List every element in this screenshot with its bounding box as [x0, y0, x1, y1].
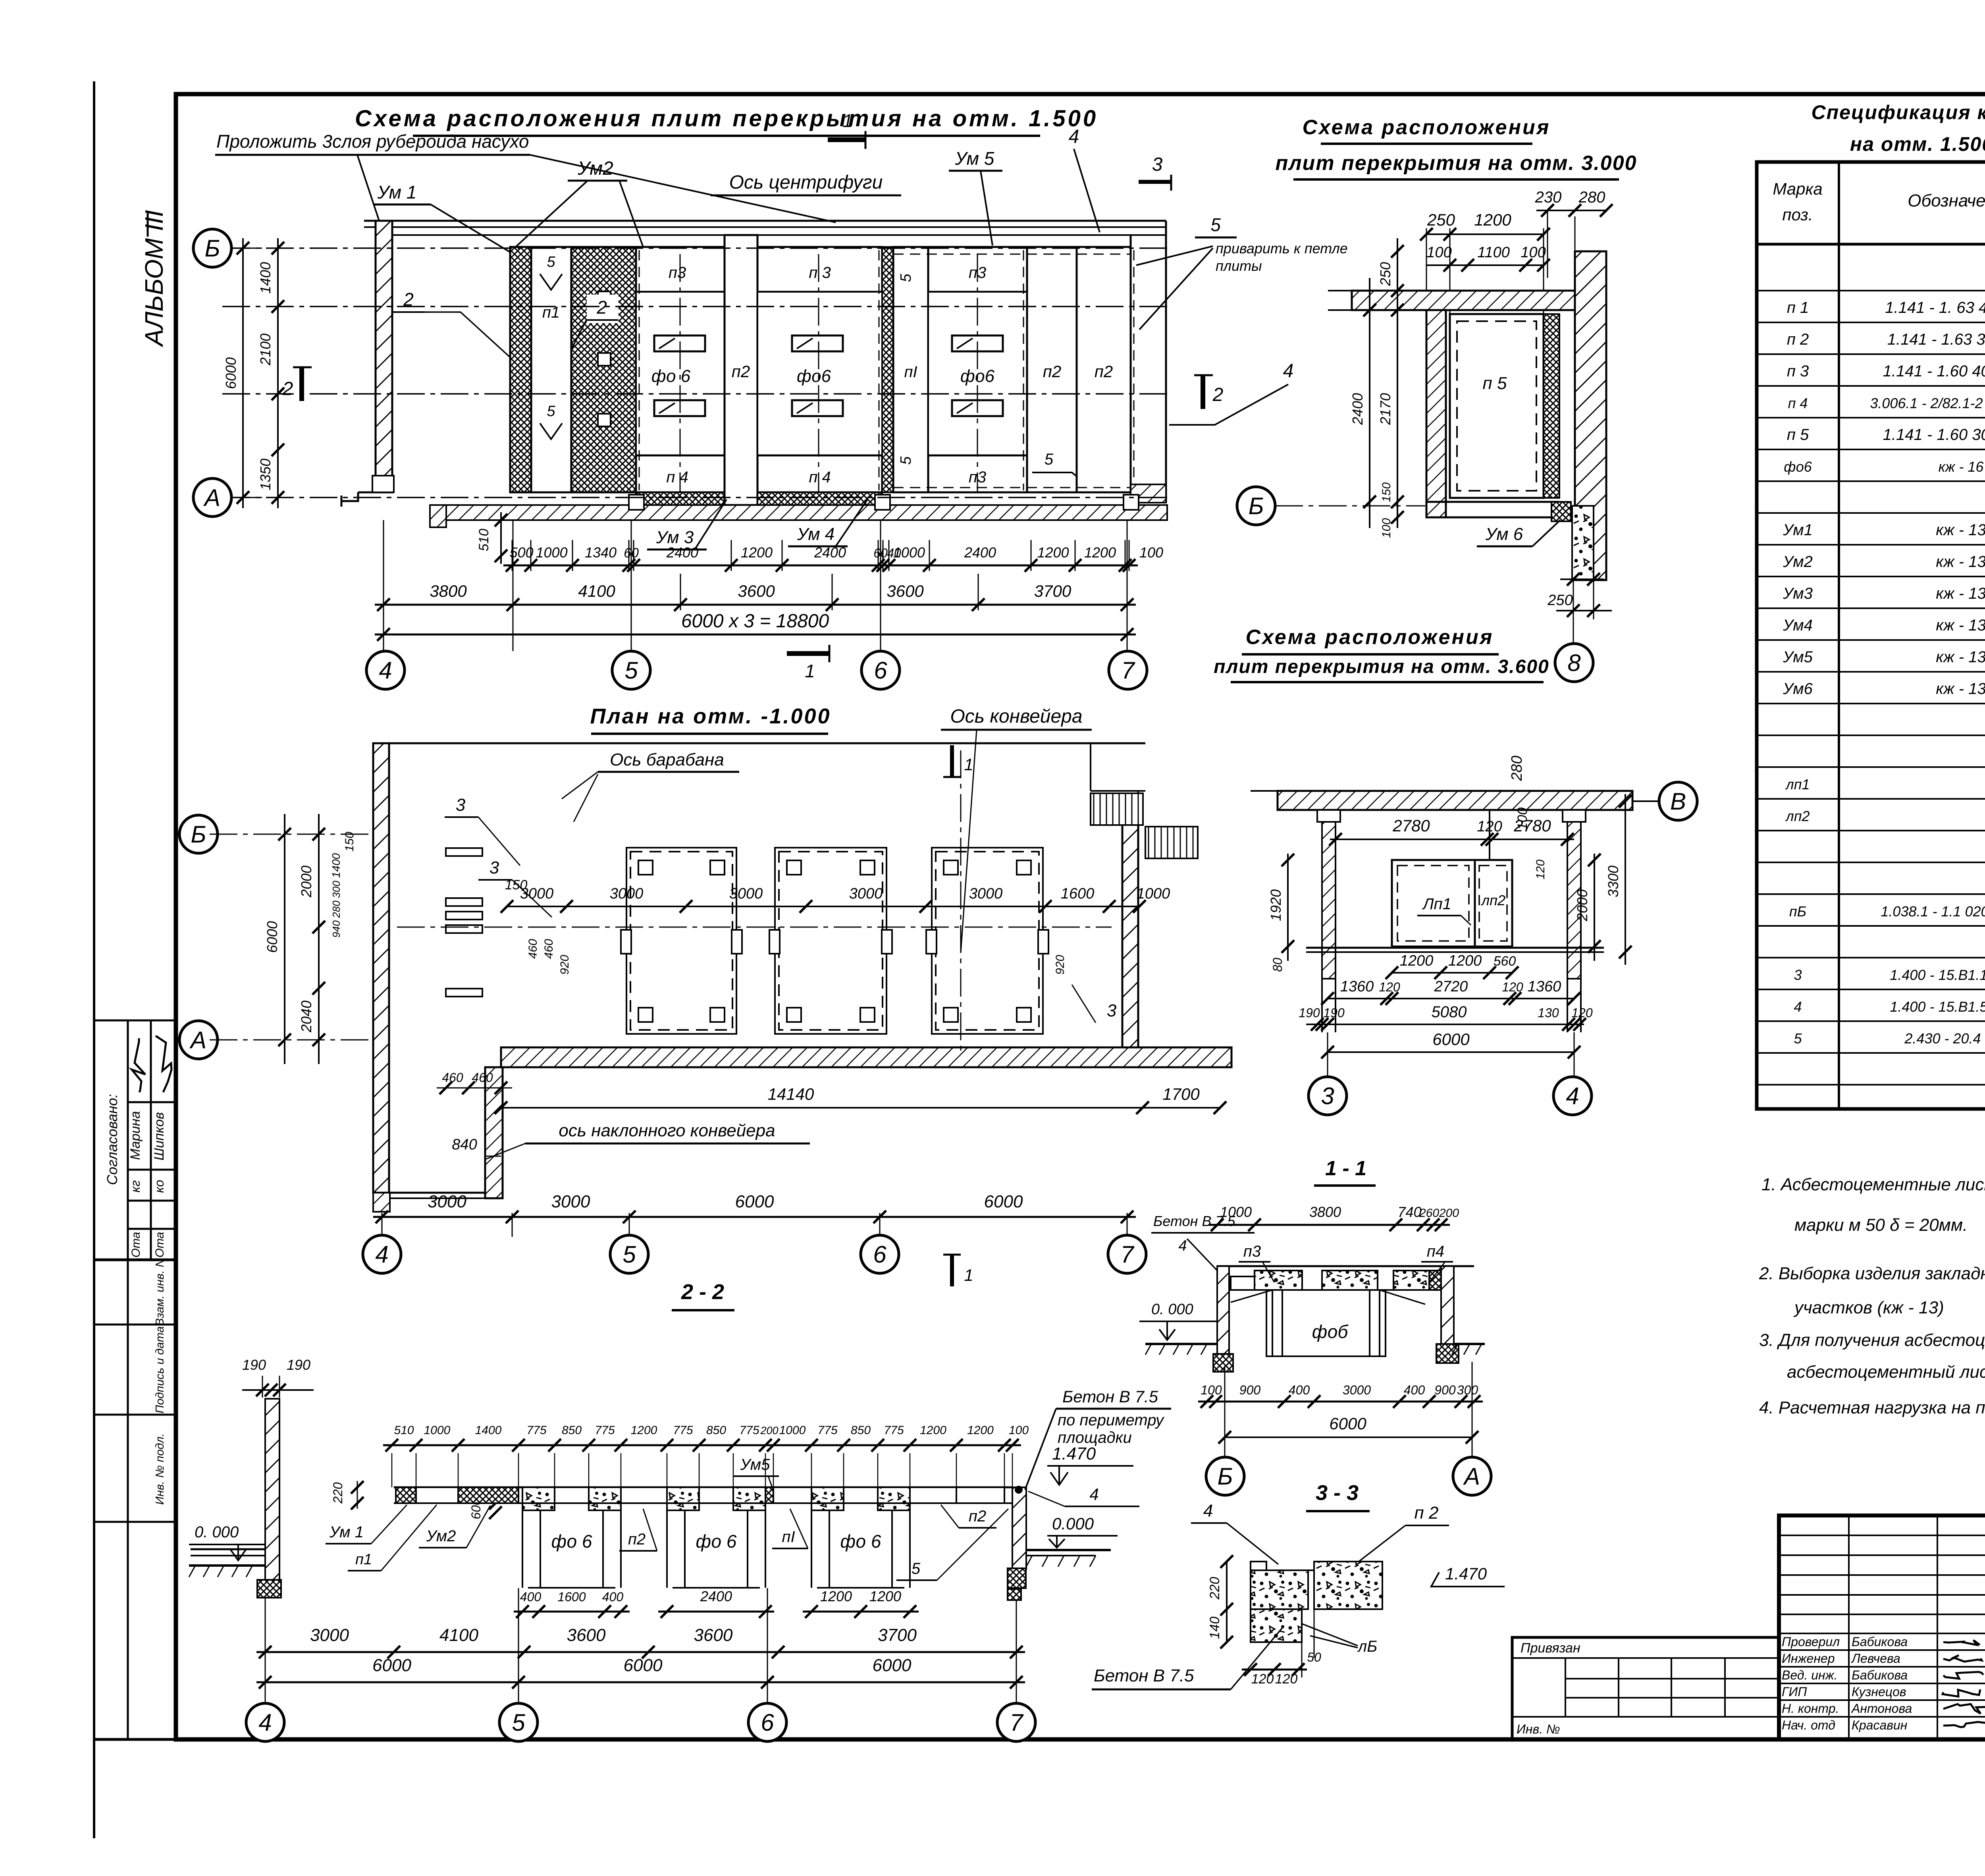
svg-text:3000: 3000 [1343, 1383, 1371, 1397]
svg-text:100: 100 [1426, 244, 1451, 261]
svg-text:фоб: фоб [1312, 1321, 1349, 1342]
fo6 centerlines [680, 254, 681, 492]
wall column axis4 [376, 221, 392, 492]
plan2 axis lines [397, 927, 1112, 928]
svg-text:775: 775 [739, 1424, 759, 1437]
svg-text:460: 460 [526, 939, 540, 959]
svg-text:3600: 3600 [738, 582, 775, 600]
axis circle 8 [1555, 644, 1593, 682]
svg-text:Спецификация к схемам ра: Спецификация к схемам расположения плит … [1812, 101, 1985, 123]
svg-text:120: 120 [1502, 980, 1523, 994]
svg-text:марки м 50 δ = 20мм.: марки м 50 δ = 20мм. [1794, 1215, 1968, 1235]
bottom wall [446, 505, 1167, 520]
svg-text:5: 5 [898, 274, 914, 282]
s33 walls [1217, 1266, 1229, 1354]
svg-text:1200: 1200 [967, 1424, 994, 1437]
svg-text:5: 5 [547, 254, 555, 270]
svg-text:5: 5 [1794, 1030, 1802, 1047]
svg-text:1400: 1400 [257, 262, 274, 294]
svg-text:ко: ко [152, 1180, 166, 1193]
bottom wall band plan2 [501, 1047, 1231, 1067]
svg-text:Левчева: Левчева [1851, 1651, 1900, 1666]
plate p2 col1 [725, 235, 757, 505]
svg-text:1: 1 [805, 661, 815, 681]
monolith column B [571, 247, 636, 492]
svg-text:Нач. отд: Нач. отд [1782, 1718, 1835, 1732]
svg-text:920: 920 [558, 955, 571, 975]
s33 fo6 box [1231, 1289, 1441, 1291]
svg-text:Ум6: Ум6 [1783, 680, 1813, 698]
svg-text:пI: пI [782, 1528, 795, 1546]
svg-text:3800: 3800 [1309, 1204, 1341, 1220]
svg-text:3000: 3000 [849, 885, 883, 902]
page margin line [93, 81, 95, 1838]
svg-text:7: 7 [1120, 1241, 1135, 1268]
svg-text:асбестоцементный лист лп: асбестоцементный лист лп I. на 640мм. [1787, 1362, 1985, 1382]
svg-text:1700: 1700 [1162, 1085, 1200, 1103]
svg-text:на отм. 1.500; 3.000; 3: на отм. 1.500; 3.000; 3.600 [1850, 133, 1985, 155]
plate p4 cell1 [636, 455, 725, 492]
svg-text:400: 400 [520, 1590, 542, 1604]
svg-text:3300: 3300 [1605, 866, 1621, 897]
svg-text:2000: 2000 [298, 866, 314, 898]
svg-text:Ум 5: Ум 5 [955, 148, 994, 169]
svg-text:1360: 1360 [1340, 978, 1374, 995]
svg-text:300: 300 [330, 881, 342, 898]
svg-text:1360: 1360 [1528, 978, 1561, 995]
svg-text:6000: 6000 [735, 1192, 774, 1211]
svg-text:4: 4 [1203, 1501, 1213, 1521]
svg-text:3600: 3600 [567, 1625, 606, 1645]
svg-text:920: 920 [1054, 955, 1067, 975]
svg-text:100: 100 [1521, 244, 1546, 261]
drawing frame [176, 94, 1985, 1739]
s22 dim row 6000 [256, 1681, 1025, 1683]
monolith strip mid [882, 247, 893, 492]
svg-text:1. Асбестоцементные листы: 1. Асбестоцементные листы укладывать на … [1761, 1175, 1985, 1194]
UM3 strip [636, 492, 725, 505]
plan2 walls [373, 743, 389, 1193]
svg-text:Ум 4: Ум 4 [797, 524, 835, 544]
svg-text:кж - 13: кж - 13 [1936, 521, 1985, 539]
monolith strip UM left [510, 247, 531, 492]
svg-text:1200: 1200 [741, 544, 773, 561]
svg-text:1200: 1200 [1037, 544, 1069, 561]
svg-text:Б: Б [1217, 1463, 1233, 1490]
svg-text:по периметру: по периметру [1058, 1411, 1165, 1429]
svg-text:лп2: лп2 [1481, 892, 1505, 908]
svg-text:230: 230 [1535, 189, 1562, 206]
svg-text:200: 200 [1439, 1207, 1459, 1220]
svg-text:6000 x 3 = 18800: 6000 x 3 = 18800 [681, 611, 829, 632]
plate p5 [1450, 314, 1544, 498]
svg-text:0.000: 0.000 [1052, 1514, 1094, 1533]
svg-text:Ось центрифуги: Ось центрифуги [729, 172, 883, 193]
s11 asbestos sheets [1392, 860, 1512, 947]
svg-text:6: 6 [874, 657, 887, 684]
svg-text:1000: 1000 [779, 1424, 806, 1437]
plan1 dim row small [503, 565, 1138, 567]
svg-text:плиты: плиты [1216, 258, 1262, 274]
section mark 1 plan2 bottom [950, 1255, 954, 1286]
svg-text:Схема расположения: Схема расположения [1303, 116, 1551, 139]
svg-text:2. Выборка изделия закл: 2. Выборка изделия закладного поз 2 дана… [1759, 1264, 1985, 1283]
svg-text:Бетон В 7.5: Бетон В 7.5 [1094, 1666, 1194, 1685]
scheme3 left dims [1397, 238, 1398, 528]
svg-text:0. 000: 0. 000 [195, 1523, 239, 1541]
svg-text:Ум1: Ум1 [1783, 521, 1813, 539]
svg-text:100: 100 [1201, 1383, 1222, 1397]
svg-text:кж - 13: кж - 13 [1936, 553, 1985, 571]
svg-text:Антонова: Антонова [1851, 1701, 1912, 1716]
svg-text:п 4: п 4 [666, 469, 688, 486]
embedded slots left [446, 848, 482, 856]
svg-text:3: 3 [1107, 1001, 1117, 1020]
svg-text:250: 250 [1547, 592, 1573, 609]
svg-text:6000: 6000 [1432, 1030, 1470, 1049]
svg-text:ось наклонного конвейера: ось наклонного конвейера [559, 1121, 775, 1140]
svg-text:2400: 2400 [964, 544, 996, 561]
svg-text:Ота: Ота [129, 1232, 143, 1258]
svg-text:План на отм. -1.000: План на отм. -1.000 [590, 704, 831, 728]
svg-text:Красавин: Красавин [1852, 1718, 1907, 1732]
svg-text:Н. контр.: Н. контр. [1782, 1701, 1839, 1716]
s11 axis circles [1309, 1077, 1347, 1115]
s11 beam line [1306, 947, 1604, 949]
svg-text:п2: п2 [1043, 362, 1061, 381]
svg-text:900: 900 [1239, 1383, 1261, 1397]
svg-text:1.141 - 1. 63 400 - 01: 1.141 - 1. 63 400 - 01 [1885, 299, 1985, 316]
svg-text:120: 120 [1275, 1672, 1298, 1687]
svg-text:120: 120 [1534, 860, 1547, 879]
plate p3 cell3 bottom [928, 455, 1027, 492]
svg-text:850: 850 [851, 1424, 871, 1437]
svg-text:1.470: 1.470 [1445, 1564, 1487, 1583]
svg-text:2400: 2400 [814, 544, 846, 561]
svg-text:Марка: Марка [1773, 179, 1822, 198]
svg-text:1200: 1200 [631, 1424, 657, 1437]
plate p4 cell2 [757, 455, 882, 492]
plan1 dim row axes [375, 604, 1136, 606]
plan2 axis circles [363, 1235, 401, 1273]
svg-text:п2: п2 [1095, 362, 1113, 381]
svg-text:п2: п2 [969, 1508, 986, 1525]
svg-text:8: 8 [1567, 650, 1581, 676]
svg-text:кж - 13: кж - 13 [1936, 617, 1985, 634]
svg-text:4100: 4100 [439, 1625, 478, 1645]
svg-text:1.141 - 1.60 3000 - 09: 1.141 - 1.60 3000 - 09 [1883, 426, 1985, 443]
svg-text:2100: 2100 [257, 334, 274, 366]
privyazan table [1512, 1637, 1779, 1739]
svg-text:190: 190 [1299, 1006, 1320, 1020]
svg-text:Подпись и дата: Подпись и дата [154, 1326, 166, 1413]
svg-text:3000: 3000 [729, 885, 763, 902]
svg-text:1.038.1 - 1.1 020000 - 02: 1.038.1 - 1.1 020000 - 02 [1881, 903, 1985, 920]
svg-text:250: 250 [1427, 210, 1455, 229]
fo6 cell3 [928, 292, 1027, 455]
svg-text:6: 6 [873, 1241, 887, 1268]
svg-text:4: 4 [1089, 1485, 1098, 1504]
svg-text:3. Для получения асбестоце: 3. Для получения асбестоцементного листа… [1759, 1330, 1985, 1350]
svg-text:7: 7 [1121, 657, 1135, 684]
svg-text:6000: 6000 [1329, 1414, 1366, 1433]
extension lines [383, 520, 384, 651]
B axis scheme3 [1237, 487, 1275, 525]
dim 14140 [501, 1107, 1143, 1109]
svg-text:1200: 1200 [820, 1588, 852, 1604]
svg-text:АЛЬБОМ III: АЛЬБОМ III [140, 210, 168, 347]
svg-text:3: 3 [1321, 1083, 1334, 1109]
svg-text:850: 850 [562, 1424, 582, 1437]
svg-text:1: 1 [842, 110, 853, 131]
svg-text:560: 560 [1494, 954, 1516, 969]
svg-text:100: 100 [1139, 544, 1163, 561]
svg-text:150: 150 [1380, 482, 1393, 502]
svg-text:2170: 2170 [1377, 393, 1393, 425]
junction squares [629, 495, 644, 510]
svg-text:1200: 1200 [1084, 544, 1116, 561]
axis circles plan1 [366, 651, 405, 689]
svg-text:5: 5 [898, 456, 914, 465]
section mark 1 plan2 top [950, 745, 954, 777]
svg-text:кж - 13: кж - 13 [1936, 585, 1985, 602]
svg-text:120: 120 [1251, 1672, 1274, 1687]
svg-text:3.006.1 - 2/82.1-2 - 1.0 - 078: 3.006.1 - 2/82.1-2 - 1.0 - 078 [1870, 395, 1985, 411]
svg-text:фо6: фо6 [797, 366, 831, 386]
svg-text:5080: 5080 [1432, 1003, 1467, 1021]
svg-text:5: 5 [1210, 214, 1221, 235]
svg-text:4. Расчетная нагрузка на: 4. Расчетная нагрузка на перекрытие 8кПа… [1759, 1398, 1985, 1417]
svg-text:4: 4 [1069, 126, 1079, 147]
svg-text:фо 6: фо 6 [551, 1531, 592, 1552]
plate p2 col2 [1027, 247, 1077, 492]
svg-text:кж - 16: кж - 16 [1939, 459, 1984, 475]
svg-text:940: 940 [330, 920, 342, 938]
svg-text:п 3: п 3 [1787, 362, 1809, 380]
right wall [1130, 235, 1132, 503]
svg-text:3800: 3800 [430, 582, 467, 600]
svg-text:14140: 14140 [768, 1085, 814, 1103]
svg-text:190: 190 [1323, 1006, 1345, 1020]
svg-text:1340: 1340 [585, 544, 617, 561]
svg-text:775: 775 [884, 1424, 904, 1437]
svg-text:3000: 3000 [610, 885, 644, 902]
svg-text:Ум2: Ум2 [426, 1527, 456, 1545]
svg-text:В: В [1670, 788, 1686, 815]
svg-text:1: 1 [964, 755, 973, 774]
s22 floor slab [394, 1487, 1012, 1488]
svg-text:4100: 4100 [578, 582, 615, 600]
svg-text:Ум 1: Ум 1 [377, 182, 417, 202]
svg-text:Бабикова: Бабикова [1852, 1635, 1908, 1649]
svg-text:Ум5: Ум5 [740, 1456, 771, 1473]
svg-text:Ум3: Ум3 [1783, 585, 1813, 602]
svg-text:4: 4 [1794, 999, 1802, 1015]
s22 right wall [1012, 1487, 1026, 1569]
title block [1779, 1515, 1985, 1739]
svg-text:Б: Б [191, 821, 206, 848]
svg-text:2 - 2: 2 - 2 [681, 1280, 724, 1304]
svg-text:3 - 3: 3 - 3 [1316, 1481, 1359, 1505]
UM4 strip [757, 492, 882, 505]
section mark 1 bottom [787, 651, 829, 656]
scheme3 footing [1572, 506, 1594, 579]
leader ruberoid [530, 155, 836, 222]
plate p2 col3 [1077, 247, 1131, 492]
svg-text:3: 3 [490, 858, 499, 877]
spec table grid [1757, 162, 1985, 1109]
svg-text:1200: 1200 [1400, 952, 1434, 969]
svg-text:4: 4 [258, 1709, 272, 1736]
svg-text:п3: п3 [1243, 1243, 1261, 1260]
svg-text:Шипков: Шипков [152, 1112, 167, 1161]
svg-text:850: 850 [706, 1424, 726, 1437]
svg-text:2720: 2720 [1434, 978, 1468, 995]
svg-text:1600: 1600 [557, 1590, 586, 1604]
svg-text:775: 775 [817, 1424, 837, 1437]
svg-text:пI: пI [904, 363, 917, 381]
svg-text:2040: 2040 [298, 1001, 314, 1033]
svg-text:250: 250 [1377, 262, 1393, 286]
svg-text:приварить к петле: приварить к петле [1216, 240, 1348, 256]
svg-text:п 4: п 4 [1788, 395, 1808, 411]
s22 foundations [522, 1510, 523, 1588]
svg-text:участков (кж - 13): участков (кж - 13) [1793, 1298, 1944, 1317]
UM6 block [1551, 502, 1571, 521]
s22 axis circles [246, 1703, 284, 1741]
svg-text:Вед. инж.: Вед. инж. [1782, 1668, 1838, 1682]
svg-text:Схема расположения плит перекр: Схема расположения плит перекрытия на от… [355, 106, 1098, 131]
s22 dim row axes [256, 1651, 1025, 1653]
left strip table [94, 1020, 176, 1022]
svg-text:2400: 2400 [1349, 393, 1366, 425]
monolith strip p5 right [1544, 314, 1559, 498]
svg-text:Ум 6: Ум 6 [1485, 524, 1523, 544]
svg-text:Ось барабана: Ось барабана [610, 750, 724, 769]
svg-text:6000: 6000 [984, 1192, 1023, 1211]
svg-text:100: 100 [1380, 518, 1393, 538]
svg-text:п 2: п 2 [1415, 1503, 1439, 1523]
svg-text:1200: 1200 [869, 1588, 901, 1604]
svg-text:Обозначение: Обозначение [1908, 191, 1985, 210]
svg-text:5: 5 [1045, 451, 1054, 468]
svg-text:80: 80 [1270, 958, 1285, 972]
s22 top dim row [383, 1444, 1021, 1446]
section mark 2 left [299, 367, 304, 401]
svg-text:п2: п2 [628, 1531, 646, 1548]
svg-text:220: 220 [331, 1482, 345, 1504]
svg-text:п2: п2 [732, 362, 750, 381]
svg-text:Привязан: Привязан [1521, 1641, 1580, 1656]
svg-text:5: 5 [912, 1560, 921, 1577]
svg-text:Инв. №: Инв. № [1517, 1722, 1560, 1736]
svg-text:Проложить 3слоя рубероида насу: Проложить 3слоя рубероида насухо [216, 131, 529, 152]
svg-text:775: 775 [595, 1424, 615, 1437]
plan2 left dims [318, 814, 320, 1064]
svg-text:6000: 6000 [372, 1656, 411, 1675]
axis lines [222, 247, 1167, 249]
svg-text:Инв. № подл.: Инв. № подл. [154, 1433, 166, 1505]
svg-text:п1: п1 [355, 1551, 372, 1568]
svg-text:3: 3 [1152, 154, 1163, 175]
dashed foundation squares [626, 848, 736, 1034]
plan2 bottom dims [373, 1216, 1136, 1218]
s33 axis circles [1206, 1457, 1244, 1495]
svg-text:6: 6 [761, 1709, 774, 1736]
svg-text:Бабикова: Бабикова [1852, 1668, 1908, 1682]
svg-text:пБ: пБ [1789, 903, 1806, 920]
svg-text:280: 280 [330, 900, 342, 918]
svg-text:Взам. инв. N: Взам. инв. N [154, 1259, 166, 1326]
svg-text:Ось конвейера: Ось конвейера [950, 706, 1082, 727]
svg-text:3600: 3600 [887, 582, 924, 600]
svg-text:1350: 1350 [257, 459, 274, 490]
svg-text:Б: Б [204, 235, 220, 262]
svg-text:Схема расположения: Схема расположения [1246, 626, 1494, 649]
svg-text:6000: 6000 [223, 357, 239, 389]
svg-text:1 - 1: 1 - 1 [1325, 1157, 1366, 1180]
svg-text:1600: 1600 [1061, 885, 1095, 902]
svg-text:фо 6: фо 6 [840, 1531, 881, 1552]
svg-text:6000: 6000 [624, 1656, 663, 1675]
section mark 1 top [828, 137, 865, 142]
svg-text:кж - 13: кж - 13 [1936, 648, 1985, 666]
svg-text:3000: 3000 [551, 1192, 590, 1211]
svg-text:2400: 2400 [700, 1588, 732, 1604]
svg-text:3: 3 [456, 795, 466, 815]
svg-text:190: 190 [287, 1357, 310, 1373]
B axis circle s11 [1659, 782, 1697, 820]
svg-text:Бетон В 7.5: Бетон В 7.5 [1153, 1213, 1236, 1229]
svg-text:п 2: п 2 [1787, 331, 1809, 348]
svg-text:260: 260 [1419, 1207, 1439, 1220]
svg-text:п 4: п 4 [809, 469, 831, 486]
plate p1 column [531, 247, 571, 492]
svg-text:кж - 13: кж - 13 [1936, 680, 1985, 698]
svg-text:фо 6: фо 6 [696, 1531, 737, 1552]
svg-text:Ум2: Ум2 [1783, 553, 1813, 571]
fo6 cell2 [757, 292, 882, 455]
svg-text:120: 120 [1571, 1006, 1593, 1020]
s11 side dims [1287, 854, 1289, 961]
s11 columns [1322, 810, 1336, 979]
axis circles AB left [193, 229, 231, 267]
svg-text:1920: 1920 [1268, 889, 1284, 921]
plan1 dim total [375, 634, 1136, 636]
svg-text:1.400 - 15.В1.540 - 01: 1.400 - 15.В1.540 - 01 [1890, 999, 1985, 1015]
scheme3 walls [1575, 251, 1606, 580]
svg-text:1100: 1100 [1477, 244, 1510, 261]
svg-text:п3: п3 [669, 264, 686, 281]
svg-text:п4: п4 [1427, 1243, 1444, 1260]
svg-text:1000: 1000 [1137, 885, 1170, 902]
svg-text:А: А [1463, 1463, 1480, 1490]
fo6 cell1 [636, 292, 725, 455]
svg-text:280: 280 [1578, 189, 1605, 206]
svg-text:Ум2: Ум2 [577, 158, 613, 179]
s11 top dims [1330, 839, 1574, 840]
svg-text:Ум4: Ум4 [1783, 617, 1813, 634]
svg-text:200: 200 [760, 1425, 778, 1436]
svg-text:140: 140 [1207, 1617, 1222, 1639]
revision table [1779, 1535, 1985, 1536]
svg-text:1200: 1200 [1474, 210, 1511, 229]
svg-text:4: 4 [1566, 1083, 1579, 1109]
svg-text:1200: 1200 [920, 1424, 946, 1437]
plate p3 cell2 [757, 247, 882, 292]
svg-text:2: 2 [1212, 384, 1224, 405]
svg-text:120: 120 [1379, 980, 1400, 994]
